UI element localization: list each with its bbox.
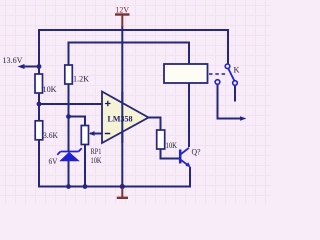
svg-text:1.2K: 1.2K bbox=[73, 75, 89, 84]
svg-text:12V: 12V bbox=[116, 6, 130, 15]
svg-text:10K: 10K bbox=[166, 141, 178, 150]
svg-text:3.6K: 3.6K bbox=[43, 131, 58, 140]
svg-text:Q?: Q? bbox=[192, 148, 201, 157]
svg-text:13.6V: 13.6V bbox=[3, 56, 23, 65]
svg-text:10K: 10K bbox=[43, 85, 57, 94]
svg-text:6V: 6V bbox=[49, 157, 58, 166]
svg-text:K: K bbox=[234, 66, 240, 75]
svg-text:RP1: RP1 bbox=[91, 147, 102, 156]
svg-text:LM358: LM358 bbox=[108, 114, 133, 124]
svg-text:10K: 10K bbox=[91, 156, 102, 165]
